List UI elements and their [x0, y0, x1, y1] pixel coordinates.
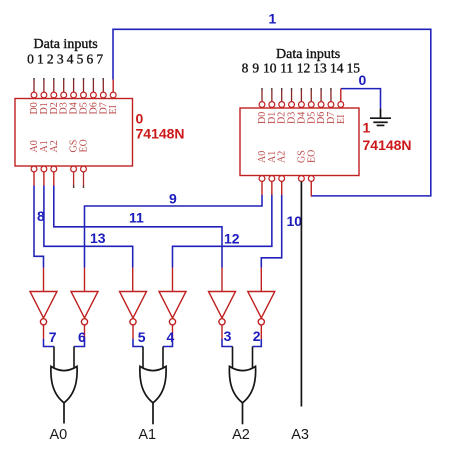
svg-text:EI: EI: [108, 105, 119, 114]
wire net 2: inverter 6 to OR3 input B: [260, 325, 262, 339]
inverter U6: [159, 292, 186, 325]
svg-text:4: 4: [67, 52, 74, 67]
svg-text:A2: A2: [232, 427, 250, 443]
svg-text:0: 0: [359, 72, 367, 88]
U1 EI red stub: [112, 80, 114, 93]
svg-text:1: 1: [37, 52, 44, 67]
svg-text:3: 3: [224, 328, 232, 344]
OR2 output wire: [152, 403, 154, 425]
svg-text:EO: EO: [79, 139, 90, 152]
svg-text:10: 10: [287, 213, 303, 229]
svg-text:7: 7: [49, 329, 57, 345]
inverter U7: [209, 292, 236, 325]
wire net 10: U2 A2 to inverter 6: [281, 182, 283, 196]
wire net 5: inverter 3 to OR2 input A: [132, 325, 134, 339]
U2 bottom pin labels: [257, 150, 317, 163]
svg-text:9: 9: [252, 61, 259, 76]
svg-text:5: 5: [77, 52, 84, 67]
svg-text:13: 13: [313, 61, 327, 76]
svg-text:6: 6: [78, 329, 86, 345]
svg-text:A3: A3: [291, 427, 309, 443]
wire net 9: U2 A0 to inverter 2: [261, 182, 263, 196]
wire net 13: U1 A1 to inverter 3: [43, 172, 45, 186]
U1 top pin stubs D0-D7,EI: [34, 78, 103, 92]
inverter U4: [71, 292, 98, 325]
U1 top pin labels: [29, 102, 119, 114]
inverter U8: [248, 292, 275, 325]
U1 top pin dark tips: [34, 78, 103, 81]
inverter U3: [30, 292, 57, 325]
wire net 8: U1 A0 to inverter 1: [33, 172, 35, 186]
U2 top pin labels: [257, 112, 347, 124]
U1 bottom pin labels: [29, 139, 90, 152]
svg-text:1: 1: [269, 11, 277, 27]
U2 top pin stubs: [262, 88, 331, 102]
svg-text:6: 6: [87, 52, 94, 67]
OR gate 2: [140, 366, 166, 402]
svg-text:0: 0: [136, 110, 144, 126]
inverter U5: [120, 292, 147, 325]
svg-text:12: 12: [224, 231, 240, 247]
wire net 0: U2 EI to ground: [341, 89, 381, 109]
svg-text:A2: A2: [277, 151, 288, 163]
ground symbol: [370, 109, 391, 126]
wire A3: U2 GS output: [300, 182, 302, 407]
svg-text:Data inputs: Data inputs: [34, 37, 98, 52]
svg-text:A0: A0: [50, 427, 68, 443]
wire net 4: inverter 4 to OR2 input B: [172, 325, 174, 339]
svg-text:8: 8: [242, 61, 249, 76]
U2 body: 74148N chip 1 rectangle: [240, 108, 359, 176]
U1 body: 74148N chip 0 rectangle: [15, 99, 133, 167]
svg-text:0: 0: [27, 52, 34, 67]
svg-text:2: 2: [47, 52, 54, 67]
U2 top pin circles: [259, 102, 344, 108]
svg-text:A1: A1: [138, 427, 156, 443]
svg-text:EI: EI: [336, 115, 347, 124]
U1 top pin circles: [31, 92, 116, 98]
svg-text:A2: A2: [49, 140, 60, 152]
svg-text:11: 11: [129, 210, 144, 226]
svg-text:EO: EO: [306, 150, 317, 163]
OR gate 3: [229, 366, 255, 402]
wire net 6: inverter 2 to OR1 input B: [84, 325, 86, 339]
svg-text:14: 14: [330, 61, 344, 76]
svg-text:10: 10: [263, 61, 277, 76]
OR3 output wire: [242, 403, 244, 425]
svg-text:2: 2: [253, 328, 261, 344]
svg-text:11: 11: [280, 61, 293, 76]
svg-text:7: 7: [96, 52, 103, 67]
svg-text:12: 12: [297, 61, 311, 76]
labels: input numbers 0-7: [27, 52, 103, 67]
wire net 12: U2 A1 to inverter 4: [271, 182, 273, 196]
OR gate 1: [51, 366, 77, 402]
U2 top pin dark tips: [262, 88, 331, 91]
U1 EO unconnected stub: [83, 172, 85, 188]
svg-text:1: 1: [363, 120, 371, 136]
wire net 3: inverter 5 to OR3 input A: [221, 325, 223, 339]
wire net 11: U1 A2 to inverter 5: [53, 172, 55, 186]
wire net 1: U2 EO loop to U1 EI: [113, 29, 431, 196]
svg-text:9: 9: [169, 191, 177, 207]
labels: input numbers 8-15: [242, 61, 361, 76]
wire net 7: inverter 1 to OR1 input A: [43, 325, 45, 339]
U1 GS unconnected stub: [73, 172, 75, 188]
U2 bottom pin circles: [259, 176, 314, 182]
svg-text:5: 5: [138, 329, 146, 345]
U2 EO red stub: [310, 182, 312, 197]
OR1 output wire: [63, 403, 65, 424]
U1 bottom pin circles: [31, 166, 86, 172]
svg-text:74148N: 74148N: [363, 137, 412, 153]
svg-text:3: 3: [57, 52, 64, 67]
svg-text:74148N: 74148N: [136, 126, 185, 142]
svg-text:4: 4: [167, 329, 175, 345]
svg-text:13: 13: [90, 230, 106, 246]
U2 EI red stub: [340, 89, 342, 102]
